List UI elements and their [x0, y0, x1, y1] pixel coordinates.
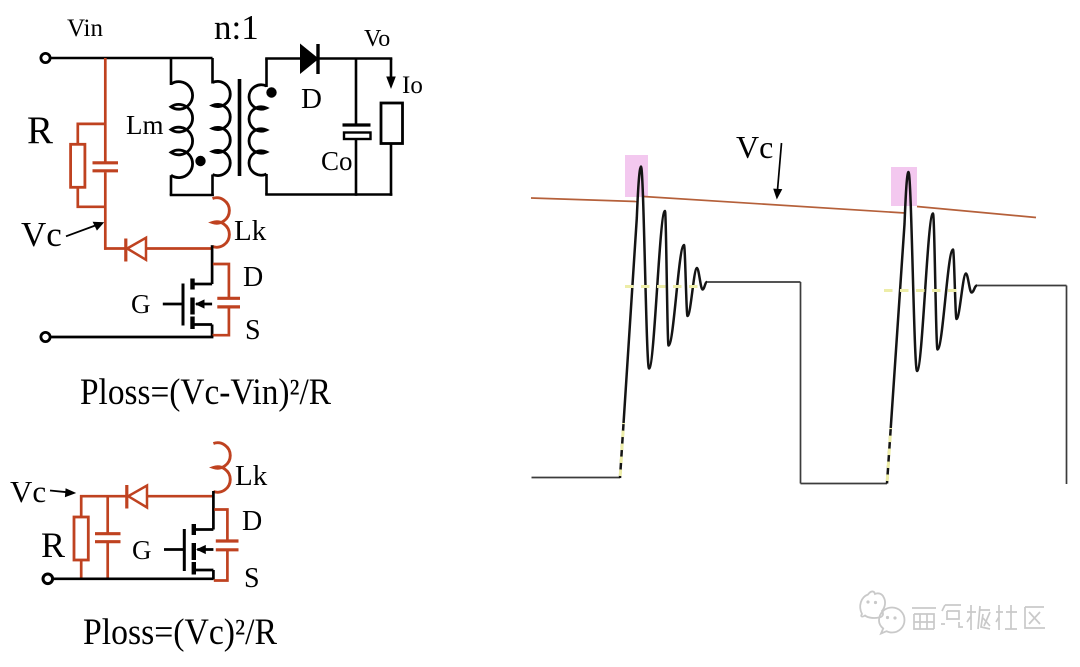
Vc waveform pointer line: [778, 143, 782, 190]
MOSFET body arrowhead (bottom circuit): [196, 545, 206, 554]
svg-text:Lm: Lm: [126, 110, 164, 140]
MOSFET gate bar (bottom circuit): [183, 529, 186, 571]
MOSFET source channel segment (bottom circuit): [192, 562, 196, 575]
inductor Lm (magnetizing): [171, 82, 193, 178]
wire: R branch vertical top (bottom circuit): [80, 495, 83, 517]
wire: gate lead: [163, 303, 183, 306]
Vc envelope segment 3: [917, 207, 1036, 218]
waveform flat top segment 2: [977, 285, 1067, 287]
capacitor Cds bottom plate: [217, 305, 240, 308]
wire: gate lead (bottom circuit): [164, 548, 184, 551]
diode D1 triangle (bottom circuit): [128, 486, 147, 508]
wire: source horizontal (bottom circuit): [194, 569, 214, 572]
MOSFET Q1 gate bar: [182, 284, 185, 326]
input terminal (top): [41, 53, 50, 62]
MOSFET drain channel segment (bottom circuit): [192, 524, 196, 535]
Vc arrowhead: [93, 222, 105, 231]
wire: transformer primary bottom link: [170, 194, 214, 197]
wire: drain lead vertical: [211, 245, 214, 284]
highlight box at second peak: [891, 167, 917, 206]
Io current arrowhead: [386, 77, 396, 90]
svg-text:Vc: Vc: [10, 474, 46, 509]
wire: Lm left rail top: [170, 58, 173, 85]
wire: primary rail top: [211, 58, 214, 84]
primary polarity dot: [195, 156, 205, 166]
svg-text:Lk: Lk: [234, 215, 267, 247]
ground terminal (bottom circuit): [43, 574, 53, 584]
yellow dashed level line 1: [625, 285, 700, 288]
wire: load bottom lead: [390, 144, 393, 196]
svg-text:Co: Co: [321, 146, 353, 176]
secondary polarity dot: [266, 87, 276, 97]
svg-text:S: S: [245, 315, 261, 346]
waveform ringing burst 2: [887, 172, 977, 484]
capacitor C snubber top plate: [93, 161, 119, 164]
svg-text:Io: Io: [402, 72, 423, 99]
wire: R branch top: [78, 124, 106, 144]
waveform falling edge 2 (right edge): [1066, 286, 1068, 485]
resistor R (bottom circuit): [74, 517, 88, 560]
svg-text:R: R: [41, 525, 65, 565]
svg-text:Ploss=(Vc-Vin)²/R: Ploss=(Vc-Vin)²/R: [80, 372, 331, 413]
waveform flat top segment 1: [707, 281, 801, 283]
capacitor Co bottom plate (polarized box): [344, 133, 371, 140]
wire: Co bottom lead: [355, 139, 358, 196]
wire: source horizontal: [193, 323, 213, 326]
waveform ringing burst 1: [620, 167, 707, 479]
wire: bottom return rail: [51, 336, 214, 339]
resistor Rload (output load): [381, 103, 403, 144]
wire: input top rail: [51, 57, 213, 60]
wire: ground rail (bottom circuit): [53, 577, 213, 580]
svg-text:Vo: Vo: [364, 26, 390, 52]
capacitor C bottom plate (bottom circuit): [95, 540, 121, 543]
highlight box at first peak: [625, 155, 648, 197]
svg-text:D: D: [243, 262, 263, 293]
svg-text:R: R: [27, 109, 53, 152]
diode D1 snubber cathode bar: [124, 239, 127, 262]
transformer T1 primary winding: [213, 81, 231, 175]
svg-text:D: D: [301, 83, 322, 115]
MOSFET Q1 body arrowhead: [195, 299, 205, 308]
svg-text:n:1: n:1: [214, 8, 259, 47]
resistor R (snubber): [71, 144, 85, 187]
svg-text:D: D: [242, 506, 262, 537]
waveform falling edge 1: [800, 282, 802, 484]
capacitor Cds top lead (bottom circuit): [214, 510, 227, 540]
Vc pointer arrow (bottom): [50, 491, 68, 493]
watermark logo eyes: [866, 600, 896, 619]
wire: clamp node horizontal (red): [80, 495, 127, 498]
wire: primary rail bottom: [211, 175, 214, 197]
wire: Lm left rail bottom: [170, 175, 173, 195]
wire: Co branch top lead: [355, 59, 358, 125]
watermark logo left bubble: [860, 591, 885, 618]
MOSFET Q1 drain channel segment: [190, 279, 194, 290]
MOSFET body channel segment (bottom circuit): [192, 543, 196, 560]
svg-text:G: G: [132, 535, 152, 565]
svg-text:Lk: Lk: [235, 460, 268, 492]
yellow dashed level line 2: [884, 289, 962, 292]
diode D (output rectifier) anode triangle: [301, 45, 319, 74]
MOSFET Q1 body channel segment: [190, 298, 194, 315]
capacitor Cds bottom lead (bottom circuit): [214, 551, 228, 581]
wire: C branch top lead (bottom circuit): [106, 495, 109, 533]
wire: Io branch top with current arrow: [390, 59, 393, 81]
svg-text:S: S: [244, 563, 260, 594]
wire: snubber bottom horizontal (left part): [104, 247, 126, 250]
MOSFET body arrow line (bottom circuit): [197, 548, 213, 551]
inductor Lk (bottom circuit): [213, 443, 230, 492]
wire: source lead down (bottom circuit): [212, 570, 215, 580]
wire: snubber horizontal to drain node: [146, 247, 213, 250]
wire: diode to Vo node: [318, 57, 392, 60]
svg-text:G: G: [131, 289, 151, 319]
capacitor Cds (red) top lead: [213, 264, 229, 297]
Vc pointer arrow: [66, 225, 98, 237]
wire: secondary rail top: [265, 59, 268, 88]
capacitor Cds bottom plate (bottom circuit): [216, 548, 239, 551]
wire: snubber vertical from Vin rail: [104, 58, 107, 162]
MOSFET Q1 source channel segment: [190, 317, 194, 330]
watermark glyph qu: [1025, 607, 1045, 628]
watermark glyph bao: [941, 605, 963, 627]
wire: snubber vertical below cap: [104, 172, 107, 250]
wire: R bottom lead: [80, 560, 83, 580]
waveform baseline segment 1: [532, 477, 621, 479]
wire: secondary rail bottom: [265, 174, 268, 195]
svg-text:Ploss=(Vc)²/R: Ploss=(Vc)²/R: [83, 612, 277, 653]
capacitor C top plate (bottom circuit): [95, 532, 121, 535]
svg-text:Vc: Vc: [736, 129, 773, 165]
Vc envelope segment 1: [531, 198, 637, 202]
wire: source lead down: [211, 325, 214, 338]
transformer T1 secondary winding: [249, 85, 266, 175]
svg-text:Vin: Vin: [67, 15, 103, 42]
wire: secondary top to diode: [265, 57, 301, 60]
capacitor Cds top plate (bottom circuit): [216, 539, 239, 542]
inductor Lk (leakage) top circuit: [213, 198, 230, 247]
Vc arrowhead (bottom): [65, 488, 76, 497]
Vc waveform arrowhead: [773, 189, 782, 200]
yellow dashed overlay on rising edge 1: [620, 423, 623, 476]
wire: C bottom lead (bottom circuit): [106, 543, 109, 580]
watermark glyph she: [996, 605, 1017, 630]
watermark glyph mian: [912, 608, 936, 629]
watermark logo right bubble: [879, 608, 905, 634]
wire: secondary bottom rail: [265, 193, 392, 196]
wire: drain horizontal (bottom circuit): [194, 528, 214, 531]
MOSFET Q1 body arrow line: [196, 303, 212, 306]
watermark glyph ban: [967, 605, 990, 630]
yellow dashed overlay on rising edge 2: [887, 428, 891, 481]
svg-text:Vc: Vc: [21, 215, 62, 254]
capacitor Co top plate: [343, 123, 371, 126]
capacitor Cds bottom lead: [213, 308, 229, 335]
wire: R branch bottom: [78, 187, 106, 207]
diode D1 cathode bar (bottom circuit): [125, 485, 128, 509]
diode D cathode bar: [316, 44, 319, 74]
wire: clamp to drain node (red, bottom circuit): [147, 495, 214, 498]
waveform baseline segment 2: [801, 483, 888, 485]
Vc envelope segment 2: [644, 197, 906, 214]
transformer core bar: [238, 79, 242, 176]
capacitor Cds top plate: [217, 297, 240, 300]
wire: drain horizontal: [193, 283, 213, 286]
input terminal (bottom): [41, 332, 50, 341]
diode D1 snubber triangle (pointing left): [127, 238, 146, 260]
wire: drain lead vertical (bottom circuit): [212, 491, 215, 530]
capacitor C snubber bottom plate: [93, 169, 119, 172]
